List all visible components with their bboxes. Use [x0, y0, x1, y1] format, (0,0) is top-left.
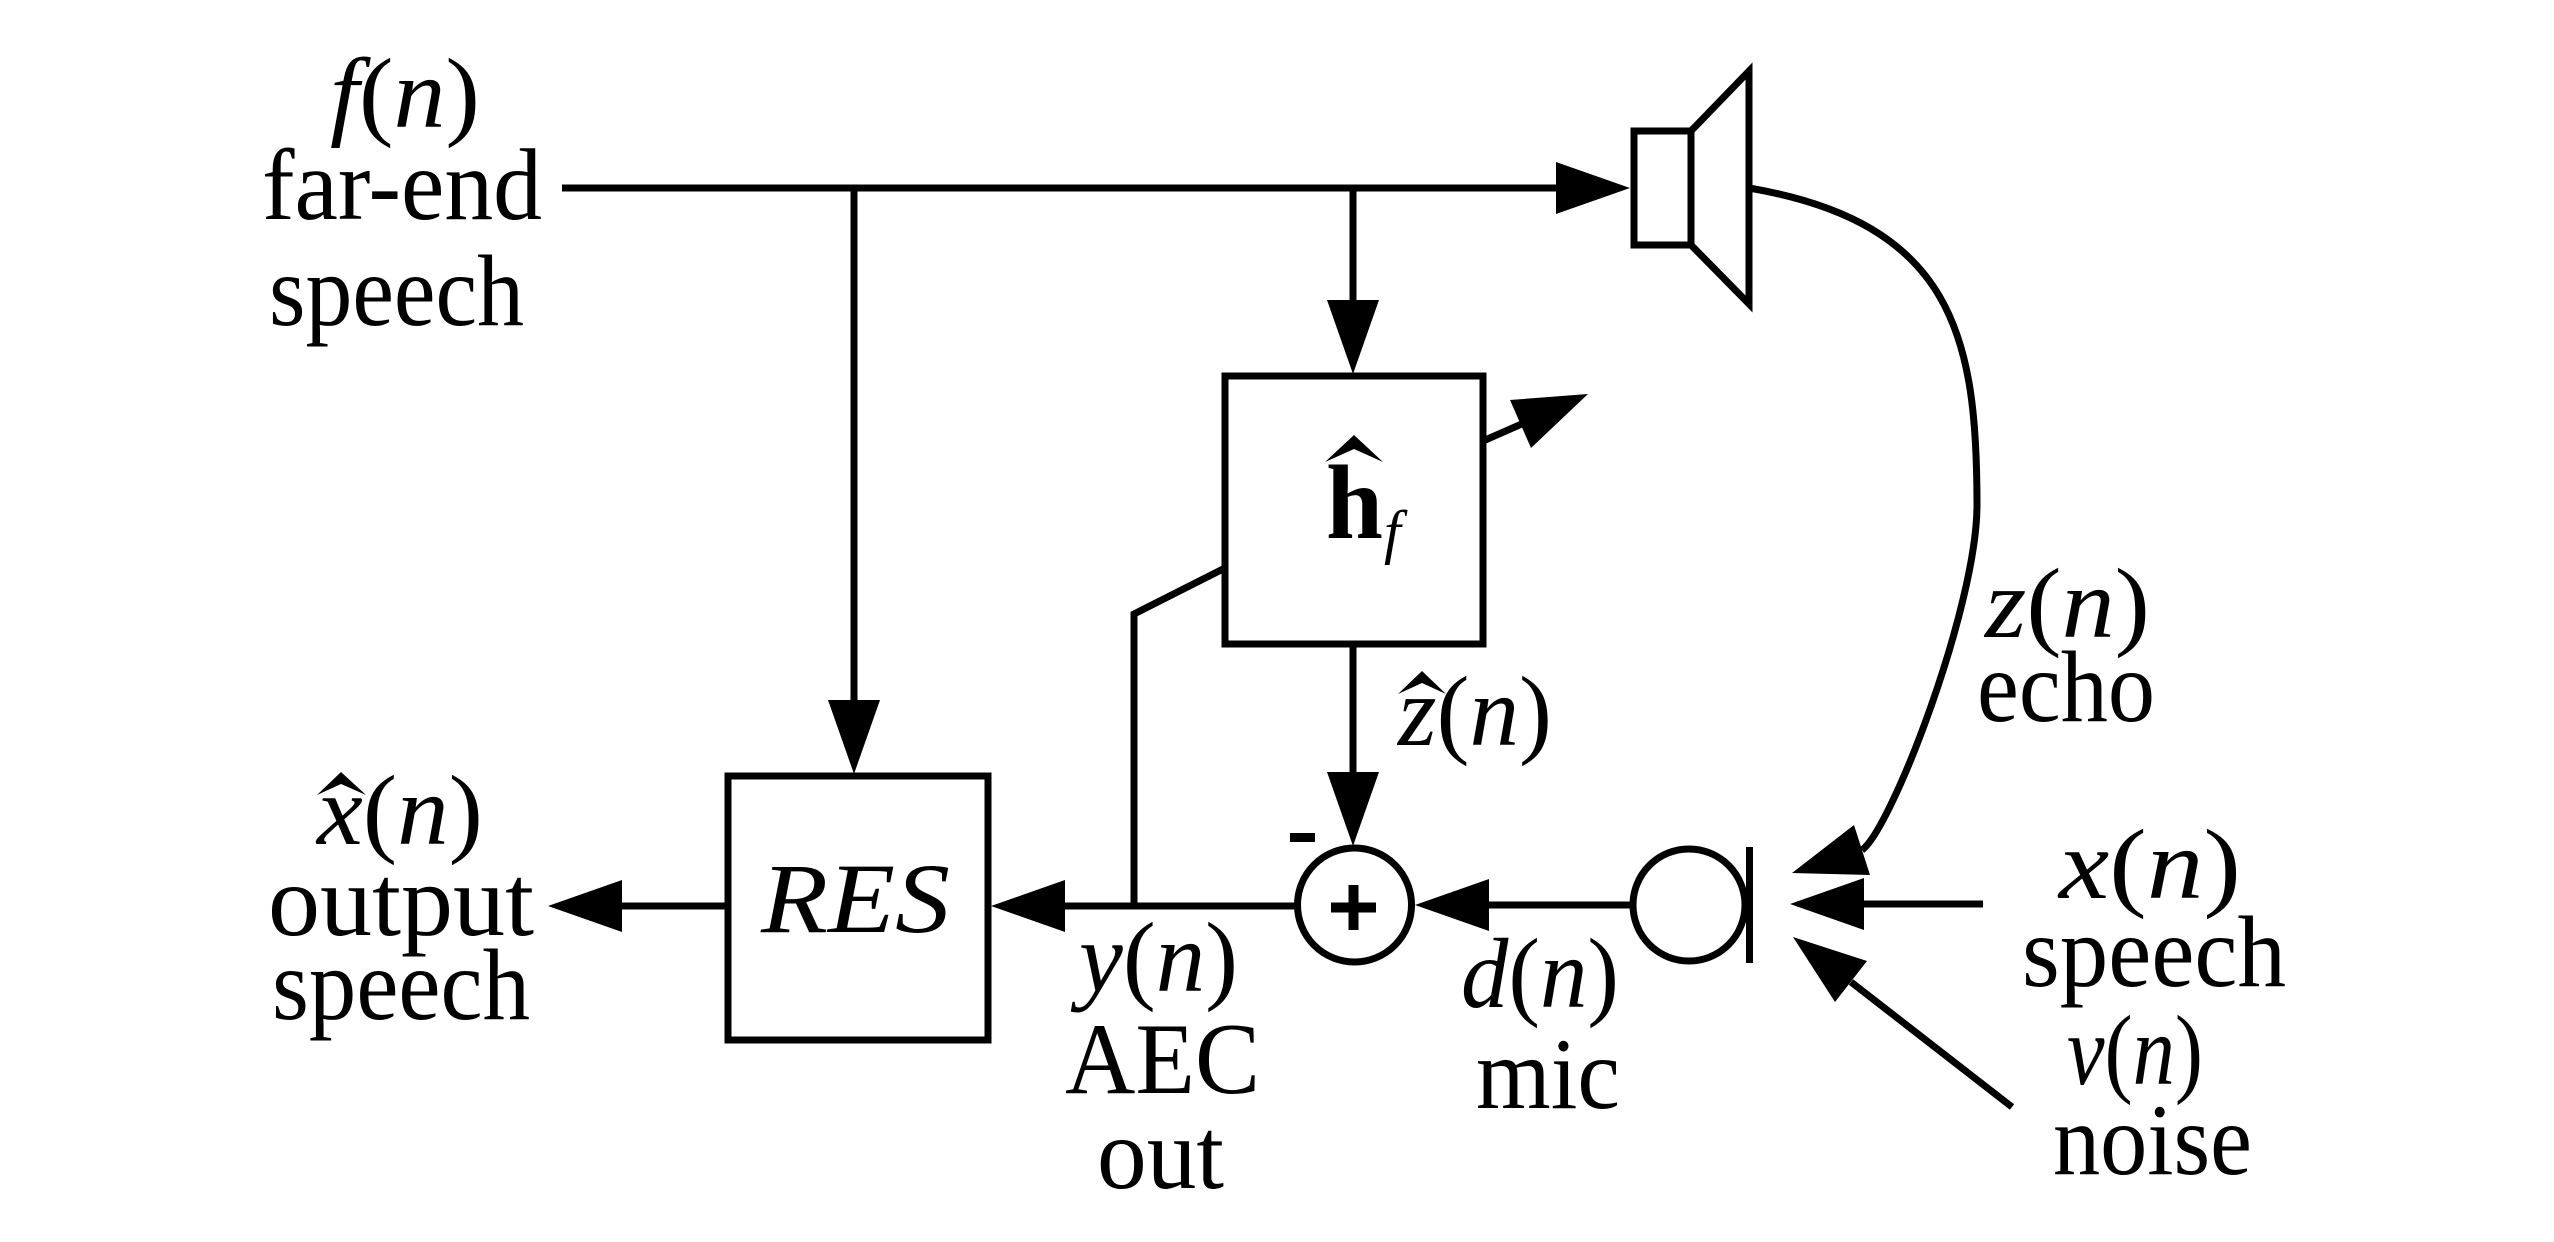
svg-text:noise: noise: [2053, 1084, 2252, 1197]
svg-text:echo: echo: [1977, 631, 2155, 744]
svg-text:mic: mic: [1476, 1018, 1620, 1131]
svg-text:speech: speech: [269, 235, 524, 348]
svg-text:h: h: [1326, 444, 1383, 561]
svg-text:d(n): d(n): [1461, 918, 1619, 1029]
svg-text:out: out: [1097, 1098, 1224, 1211]
svg-text:speech: speech: [2022, 896, 2286, 1009]
svg-text:y(n): y(n): [1070, 902, 1238, 1013]
svg-text:z(n): z(n): [1396, 656, 1552, 767]
svg-text:RES: RES: [760, 843, 950, 954]
svg-text:far-end: far-end: [262, 129, 542, 242]
svg-text:speech: speech: [272, 929, 530, 1042]
